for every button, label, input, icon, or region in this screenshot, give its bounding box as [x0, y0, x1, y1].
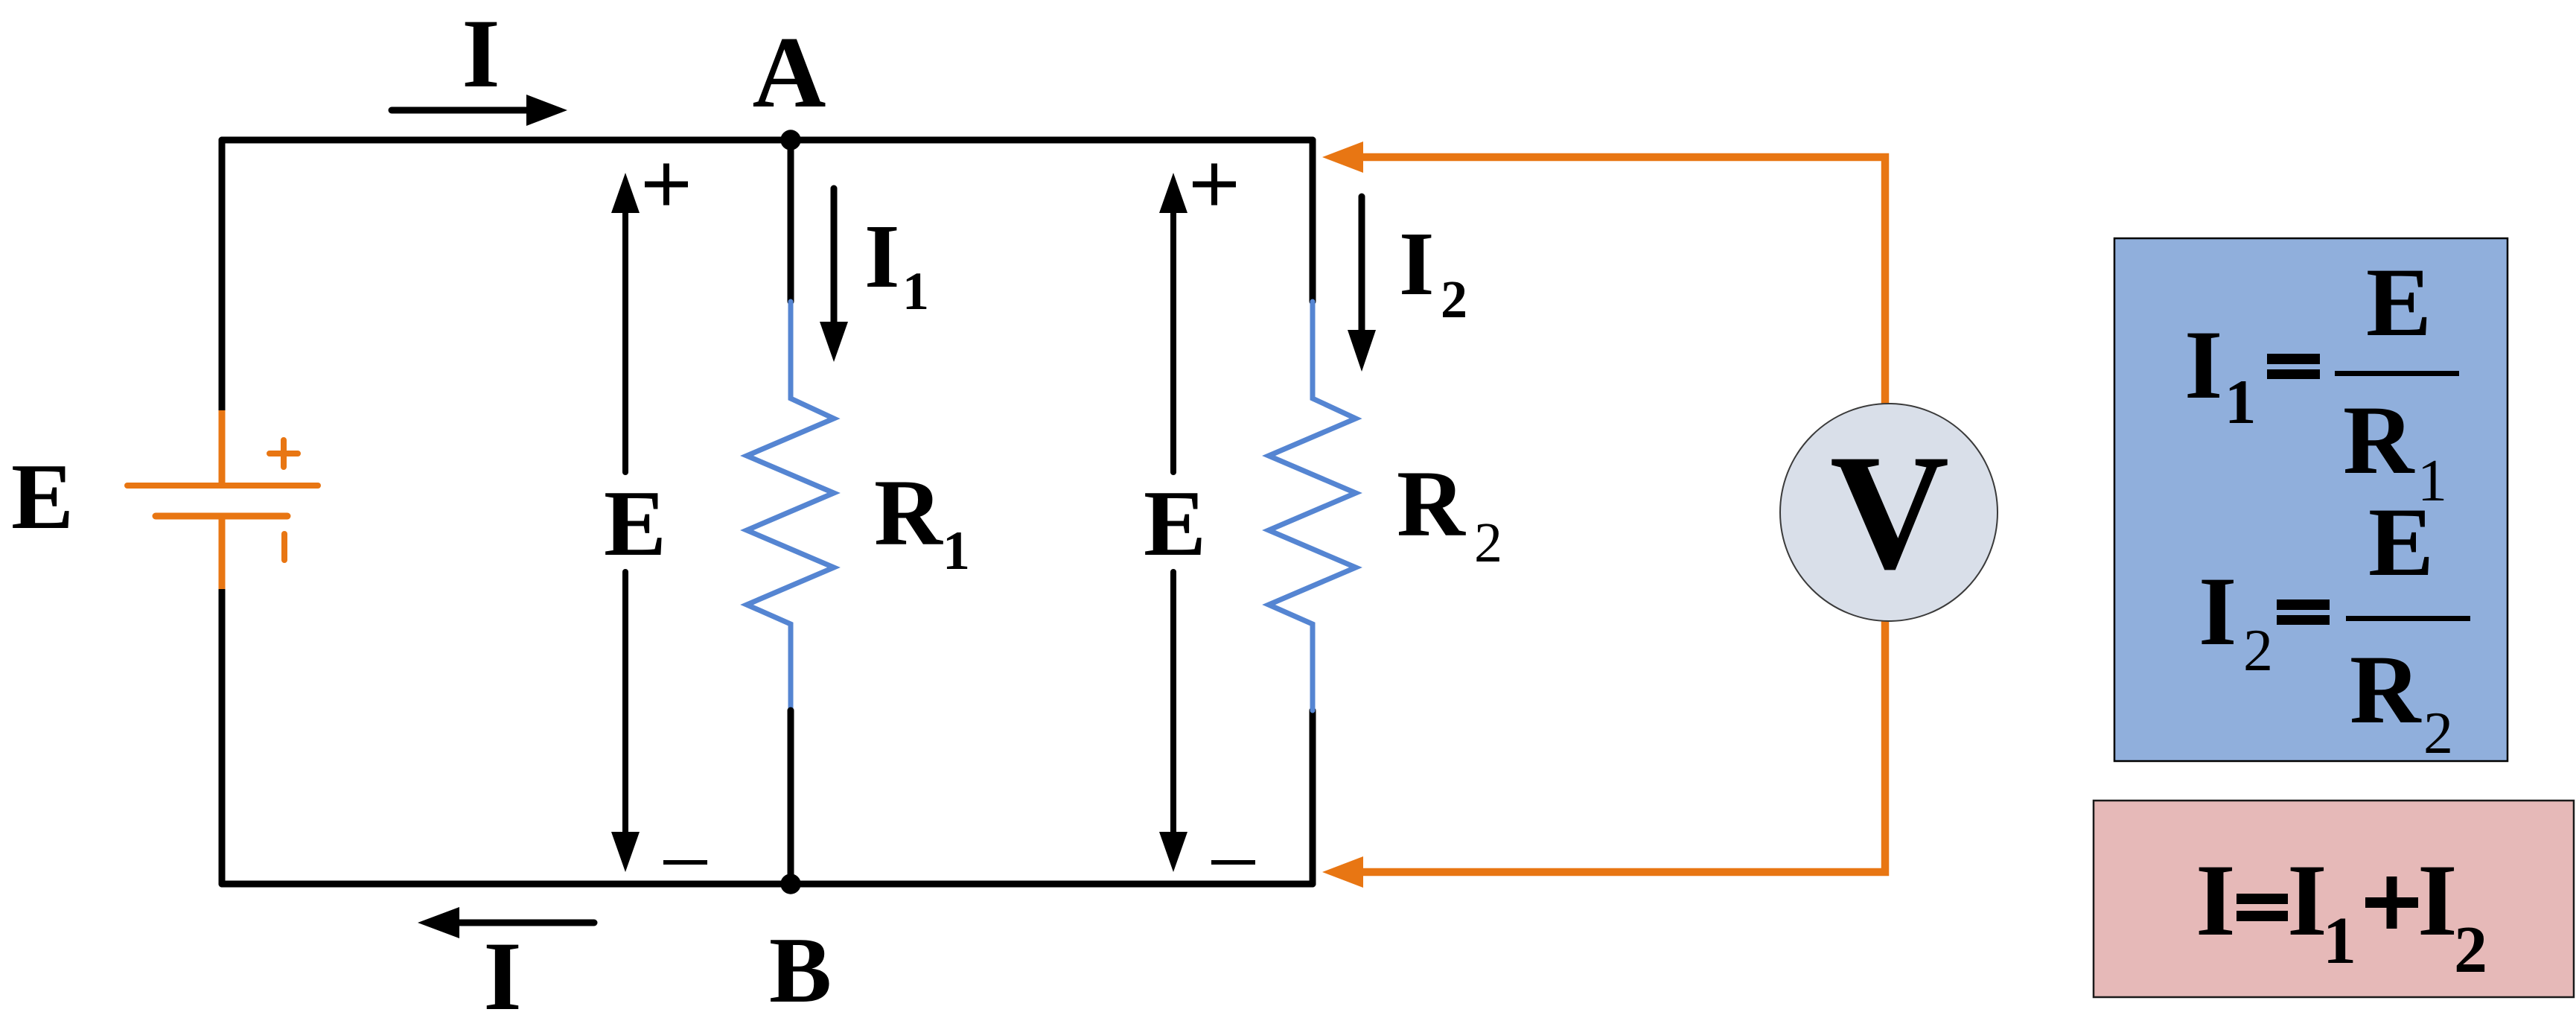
wire right conductor lower (lead of R2)	[1310, 710, 1316, 884]
wire right conductor upper (lead of R2)	[1310, 140, 1316, 302]
wire voltmeter orange lead bottom	[1322, 621, 1885, 888]
resistor R1	[747, 302, 834, 710]
wire branch R1 lower lead	[788, 710, 794, 884]
node B	[780, 874, 800, 894]
svg-text:2: 2	[1441, 270, 1467, 329]
formula box I=I1+I2	[2094, 801, 2574, 997]
svg-text:V: V	[1830, 421, 1949, 604]
svg-text:A: A	[753, 16, 826, 129]
svg-text:I: I	[2196, 843, 2236, 957]
svg-text:1: 1	[2225, 367, 2257, 437]
plus mark right	[1193, 164, 1236, 206]
battery E	[127, 410, 318, 589]
minus mark right	[1211, 860, 1255, 865]
current arrow I bottom	[418, 907, 594, 938]
svg-text:2: 2	[2243, 618, 2273, 684]
svg-text:I: I	[2287, 843, 2327, 957]
svg-text:R: R	[2350, 634, 2422, 744]
svg-text:E: E	[2366, 247, 2432, 357]
svg-text:2: 2	[1474, 512, 1502, 574]
svg-text:I: I	[2199, 556, 2237, 666]
svg-text:R: R	[874, 461, 943, 565]
svg-text:1: 1	[902, 261, 929, 321]
svg-text:E: E	[2368, 487, 2434, 597]
svg-text:2: 2	[2454, 913, 2487, 987]
svg-text:I: I	[2184, 310, 2222, 419]
svg-text:I: I	[864, 206, 899, 307]
svg-text:1: 1	[943, 521, 970, 582]
svg-text:R: R	[2343, 385, 2415, 494]
svg-text:R: R	[1397, 452, 1466, 556]
current arrow I2	[1348, 197, 1376, 372]
svg-text:B: B	[769, 919, 832, 1018]
node A	[780, 130, 800, 150]
svg-text:I: I	[483, 921, 521, 1018]
wire top conductor A-row	[222, 137, 1313, 144]
wire voltmeter orange lead top	[1322, 141, 1885, 404]
current arrow I1	[820, 188, 848, 362]
voltage arrow E left (double headed)	[611, 173, 640, 872]
svg-text:E: E	[11, 445, 74, 549]
plus mark left	[645, 164, 688, 206]
minus mark left	[663, 860, 707, 865]
resistor R2	[1269, 302, 1356, 710]
svg-text:2: 2	[2423, 701, 2453, 766]
current arrow I top	[392, 95, 567, 126]
svg-text:I: I	[462, 0, 500, 108]
wire left conductor upper	[219, 140, 226, 410]
svg-text:E: E	[604, 472, 666, 576]
formula box I1=E/R1 I2=E/R2	[2114, 238, 2508, 766]
voltage arrow E right (double headed)	[1159, 173, 1187, 872]
wire left conductor lower	[219, 589, 226, 884]
svg-text:I: I	[2417, 843, 2458, 957]
svg-text:I: I	[1399, 214, 1434, 314]
svg-text:1: 1	[2323, 904, 2356, 978]
voltmeter V	[1780, 404, 1998, 621]
svg-text:E: E	[1144, 472, 1206, 576]
wire branch R1 upper lead	[788, 140, 794, 302]
wire bottom conductor B-row	[222, 881, 1313, 888]
